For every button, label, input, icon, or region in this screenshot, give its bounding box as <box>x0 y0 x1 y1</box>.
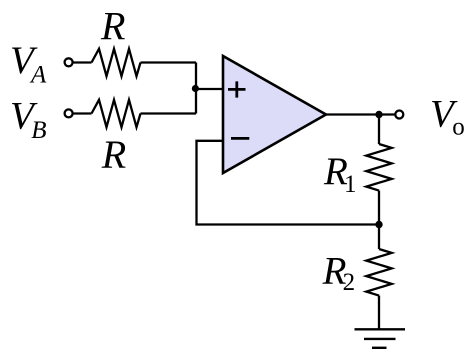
svg-text:R: R <box>100 3 125 48</box>
node at input junction <box>192 85 199 92</box>
wire R1 to feedback node <box>378 191 380 225</box>
resistor R2 (vertical zigzag) <box>366 249 391 296</box>
ground <box>355 329 406 348</box>
wire vertical joining both inputs <box>195 63 197 114</box>
wire node down to R2 <box>378 225 380 250</box>
svg-text:A: A <box>29 61 47 88</box>
terminal V_o (open circle) <box>395 111 403 119</box>
wire output node down to R1 <box>378 115 380 145</box>
node at R1/R2 junction <box>375 221 382 228</box>
op-amp U1 triangle body <box>223 56 326 173</box>
resistor R (bottom, horizontal zigzag) <box>92 100 141 127</box>
svg-text:2: 2 <box>343 269 356 296</box>
op-amp + input marker <box>228 81 246 97</box>
wire from V_B terminal to resistor R (bottom) <box>73 112 91 114</box>
wire from bottom resistor to input junction <box>141 112 197 114</box>
wire op-amp - input feedback (left, down, right) <box>197 141 380 225</box>
wire from top resistor to input junction <box>141 61 197 63</box>
wire op-amp output <box>326 113 395 115</box>
svg-text:R: R <box>101 132 126 177</box>
node at output <box>375 111 382 118</box>
wire from junction node to op-amp + input <box>196 88 223 90</box>
wire from V_A terminal to resistor R (top) <box>74 61 92 63</box>
resistor R1 (vertical zigzag) <box>366 144 391 191</box>
op-amp - input marker <box>231 137 249 140</box>
svg-text:1: 1 <box>344 171 357 198</box>
svg-text:B: B <box>31 117 46 144</box>
wire R2 down to ground <box>378 296 380 329</box>
resistor R (top, horizontal zigzag) <box>92 49 141 76</box>
terminal V_A (open circle) <box>65 58 73 66</box>
svg-text:o: o <box>452 114 465 141</box>
terminal V_B (open circle) <box>65 109 73 117</box>
